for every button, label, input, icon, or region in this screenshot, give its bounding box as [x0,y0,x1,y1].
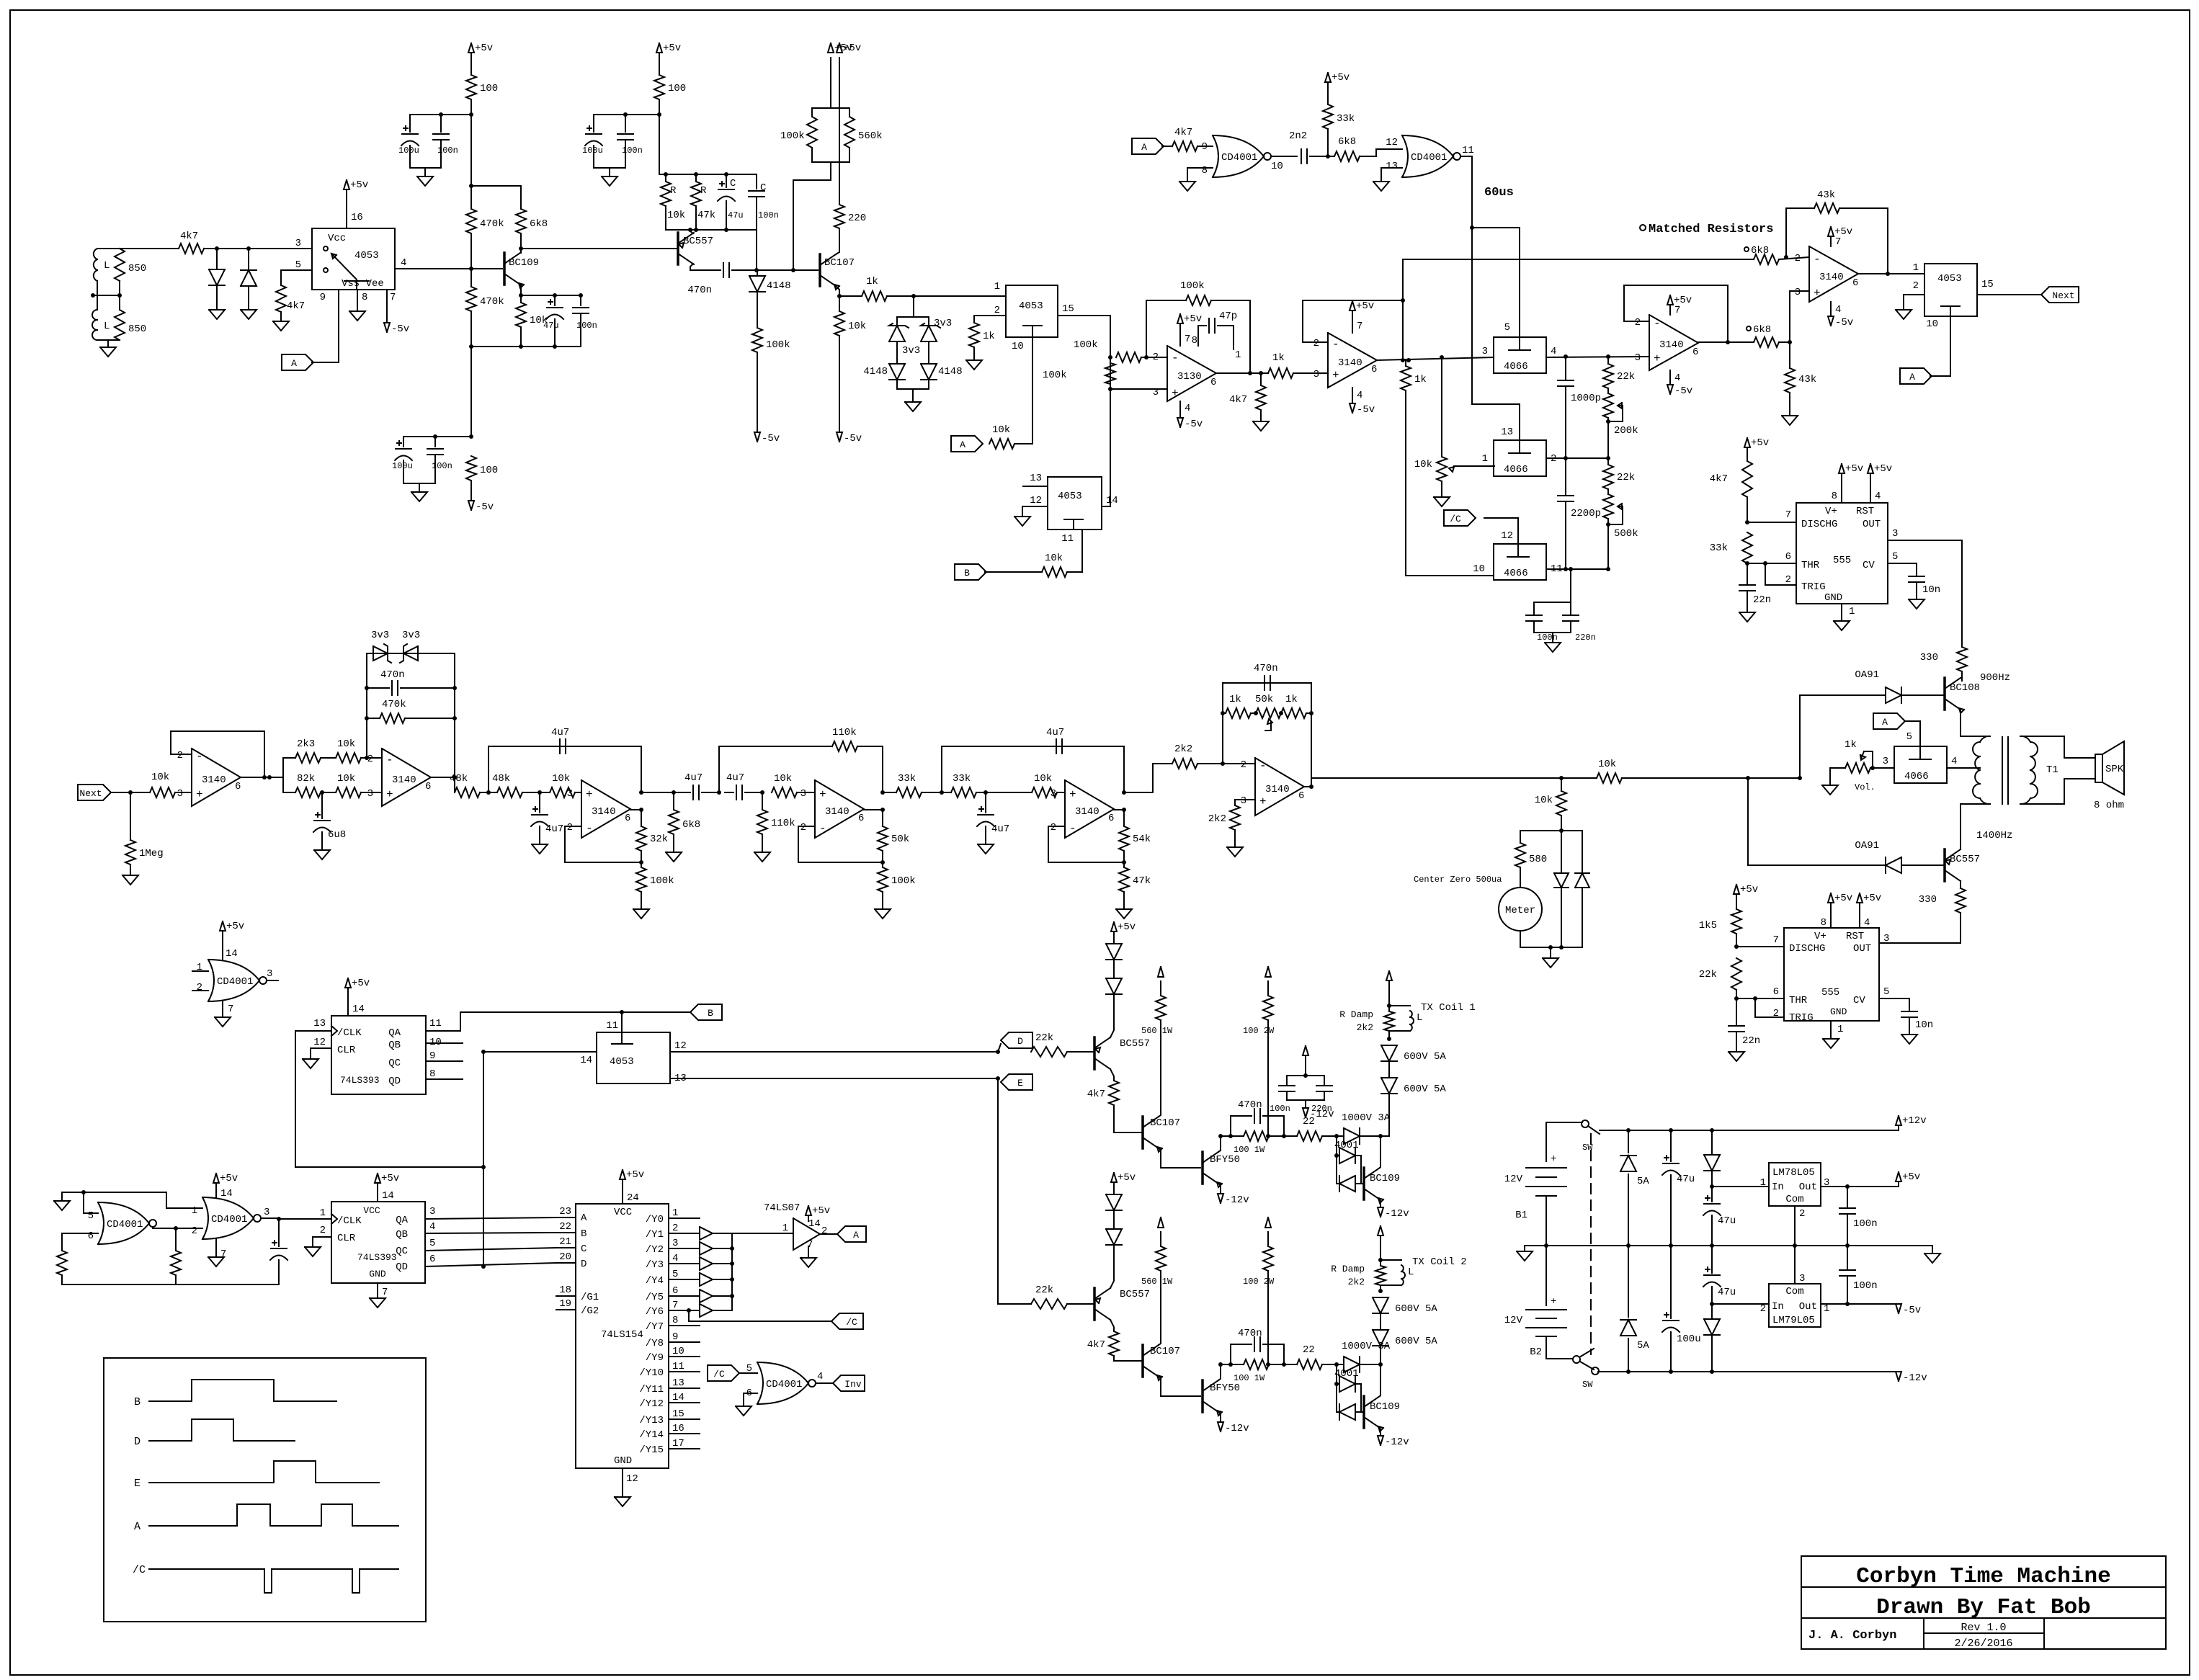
svg-text:Meter: Meter [1505,905,1535,916]
gate CD4001 osc B [192,1197,270,1239]
diode string 2 TX2 [1106,1229,1122,1255]
svg-text:14: 14 [672,1392,684,1403]
svg-text:BC109: BC109 [1370,1173,1400,1184]
svg-text:4: 4 [1674,372,1680,384]
svg-text:B2: B2 [1530,1346,1542,1358]
svg-text:6: 6 [429,1254,435,1265]
svg-text:C: C [730,178,736,189]
power +5v BC107 [837,43,861,54]
svg-text:LM79L05: LM79L05 [1772,1315,1815,1326]
svg-text:+5v: +5v [1874,463,1892,475]
svg-text:100: 100 [480,465,498,476]
svg-text:10k: 10k [552,773,570,785]
resistor 48k second [480,773,531,797]
meter M1 [1499,888,1542,947]
zener clamp network [897,296,929,326]
resistor 10k chain in [150,772,192,797]
svg-text:L: L [1408,1266,1414,1278]
ground caps2 [411,483,427,501]
resistor osc mid [171,1228,181,1284]
junction [433,434,437,439]
svg-text:+5v: +5v [1751,437,1769,449]
wire BC557 collector TX1 [1110,1069,1114,1081]
junction [579,293,583,298]
junction [1266,1362,1270,1367]
wire caps bottom cell2 [594,167,625,169]
capacitor 4u7 coupling A [674,772,719,800]
junction [1122,790,1126,795]
wire base BC109 [395,268,502,269]
pot 10k wiper [1449,466,1494,472]
svg-text:100u: 100u [392,461,413,471]
svg-text:6: 6 [1298,790,1304,802]
junction [1606,567,1610,571]
svg-text:E: E [1017,1078,1023,1089]
resistor 1k fb left [1223,694,1251,718]
svg-text:9: 9 [320,292,326,303]
svg-text:-: - [1172,352,1179,365]
pin 14 wire U13 [1102,495,1118,506]
svg-text:CD4001: CD4001 [1411,152,1447,164]
svg-text:4: 4 [1185,403,1190,414]
svg-text:-: - [1069,822,1076,835]
svg-text:1: 1 [192,1205,197,1217]
junction [620,1010,624,1014]
svg-text:47u: 47u [1677,1174,1695,1185]
svg-text:2: 2 [1913,280,1919,292]
wire TX1 column [1380,1135,1389,1137]
svg-text:4053: 4053 [1937,273,1962,285]
op-amp A3 3140 [567,780,631,838]
svg-text:BFY50: BFY50 [1210,1154,1240,1166]
junction [911,294,916,298]
ground battery mid [1517,1246,1546,1261]
svg-text:100k: 100k [891,875,916,887]
svg-text:22k: 22k [1035,1284,1053,1296]
svg-text:7: 7 [1835,236,1841,248]
transistor Q2 BC557 [678,233,713,264]
junction [940,790,944,795]
svg-text:+12v: +12v [1902,1115,1927,1127]
U17 power +5v [345,978,370,1016]
gate U6 CD4001 second [1386,135,1460,177]
svg-text:7: 7 [672,1300,678,1311]
svg-text:2: 2 [197,982,202,993]
svg-text:4: 4 [672,1253,678,1264]
svg-text:-5v: -5v [844,433,862,444]
svg-text:5: 5 [1504,322,1510,334]
capacitor 47u reg lower [1703,1246,1736,1304]
svg-text:4k7: 4k7 [180,231,198,242]
transistor BFY50 TX2 [1159,1377,1240,1416]
resistor 4k7 TX1 [1087,1081,1141,1132]
svg-text:100k: 100k [650,875,674,887]
svg-text:+5v: +5v [220,1173,238,1184]
junction [1228,1362,1233,1367]
svg-text:-12v: -12v [1385,1208,1409,1220]
resistor 1k 3140a out [1401,360,1427,576]
capacitor 470n damp TX1 [1231,1099,1284,1136]
svg-text:+: + [1069,788,1076,801]
junction [639,860,643,864]
junction [623,112,628,117]
svg-text:5A: 5A [1637,1176,1649,1187]
svg-text:-5v: -5v [476,501,494,513]
svg-text:+: + [1172,387,1179,400]
U19 QB wire [425,1221,556,1233]
svg-text:10: 10 [1012,341,1024,352]
resistor 4k7 TX2 [1087,1331,1141,1361]
svg-text:A: A [1141,142,1147,153]
svg-text:11: 11 [429,1018,442,1029]
svg-text:D: D [1017,1036,1023,1047]
svg-text:QA: QA [388,1027,401,1039]
wire to matched resistors [1403,259,1732,300]
svg-text:47u: 47u [543,321,559,331]
svg-text:6k8: 6k8 [530,218,548,230]
junction [91,293,95,298]
svg-text:/G2: /G2 [581,1305,599,1317]
svg-text:43k: 43k [1798,374,1816,385]
U19 QA wire [425,1206,556,1219]
junction [730,1294,734,1298]
svg-text:1: 1 [1837,1024,1843,1035]
IC U13 4053 B mux [1048,477,1102,530]
svg-text:850: 850 [128,323,146,335]
gate2 input13 ground [1373,168,1402,191]
net flag Next in [78,785,111,800]
resistor 330 bottom [1883,888,1966,943]
svg-text:12: 12 [674,1040,687,1052]
svg-text:-5v: -5v [1185,419,1203,430]
gate2 output 60us [1460,145,1474,228]
svg-text:14: 14 [382,1190,394,1202]
ground 4k7 [273,321,289,331]
svg-text:48k: 48k [450,773,468,785]
diode meter clamp 2 [1575,831,1589,947]
svg-text:OUT: OUT [1853,943,1871,955]
junction [760,790,764,795]
ground 1k [966,360,982,370]
svg-text:2k2: 2k2 [1357,1022,1373,1033]
resistor 6k8 matched lower [1747,324,1790,347]
svg-text:6: 6 [672,1285,678,1297]
svg-text:QD: QD [388,1076,401,1087]
diode 4148 shunt [749,270,791,328]
inv gate output [816,1371,833,1383]
svg-text:100k: 100k [766,339,790,351]
A5 feedback cap 4u7 [942,727,1124,792]
svg-text:6k8: 6k8 [682,819,700,831]
resistor 22k D [1031,1032,1094,1057]
U20 output pins Y0-Y15 [639,1207,700,1456]
svg-text:D: D [134,1436,140,1448]
wire 4k7 to pin3 [204,248,312,249]
junction [1559,776,1564,780]
resistor 43k feedback [1786,189,1888,274]
resistor 4k7 3130 out [1229,373,1269,431]
IC U19 74LS393 first [331,1202,425,1283]
resistor 22k upper [1603,357,1635,388]
svg-text:1: 1 [320,1207,326,1219]
svg-text:8: 8 [1192,335,1197,347]
diode 600V 5A second TX2 [1373,1330,1437,1364]
gate1 input8 ground [1179,168,1213,191]
svg-text:7: 7 [390,292,396,303]
3140b feedback [1624,285,1728,342]
svg-text:10n: 10n [1915,1019,1933,1031]
resistor 10k BC107 emitter [834,296,866,432]
svg-text:Out: Out [1799,1301,1817,1313]
gate1 output wire [1271,156,1297,172]
A4 feedback 110k [719,727,883,792]
svg-text:/Y7: /Y7 [646,1321,664,1333]
capacitor 100u bulk lower [1662,1246,1701,1372]
net flag D [998,1032,1032,1052]
svg-text:BC109: BC109 [509,257,539,269]
svg-text:-5v: -5v [762,433,780,444]
svg-text:A: A [1882,717,1888,728]
junction [1122,860,1126,864]
capacitor 4u7 shunt A5 [977,792,1009,854]
svg-text:8: 8 [1821,917,1826,929]
resistor 22 TX2 [1284,1344,1337,1370]
label center zero [1414,875,1502,885]
svg-text:/C: /C [133,1564,146,1576]
U21 power [800,1205,830,1267]
wire coil pair bottom [97,339,120,341]
3140a feedback wire [1303,300,1403,360]
op-amp A5 3140 [1051,780,1115,838]
svg-text:22n: 22n [1753,594,1771,606]
gate CD4001 inv [746,1362,816,1404]
svg-text:+5v: +5v [812,1205,830,1217]
op-amp U4 3140 [1313,333,1378,388]
zener 3v3 left [889,323,920,364]
svg-text:555: 555 [1833,555,1851,566]
svg-text:TRIG: TRIG [1801,581,1826,593]
net flag /C sample [1444,510,1476,526]
svg-text:3: 3 [800,788,806,800]
svg-text:TX Coil 2: TX Coil 2 [1412,1256,1467,1268]
svg-text:B: B [581,1228,586,1240]
waveform E [134,1461,379,1490]
svg-text:6: 6 [858,813,864,824]
svg-text:560 1W: 560 1W [1141,1277,1173,1287]
junction [1784,255,1788,259]
wire sw to xfmr [1947,767,1980,769]
svg-text:7: 7 [1785,509,1791,521]
svg-text:7: 7 [1773,934,1779,946]
svg-text:THR: THR [1801,560,1820,571]
svg-text:100: 100 [480,83,498,94]
svg-text:6: 6 [1852,277,1858,289]
svg-text:2: 2 [567,822,573,834]
svg-text:5: 5 [1892,551,1898,563]
wire sw3 out [1546,568,1608,570]
svg-text:47k: 47k [1133,875,1151,887]
junction [1334,1134,1339,1138]
junction [365,756,369,760]
svg-text:BC107: BC107 [1150,1346,1180,1357]
svg-text:4148: 4148 [938,366,963,377]
555b pin4 +5v [1857,893,1881,929]
555a discharge wire [1747,509,1796,522]
svg-text:60us: 60us [1484,186,1514,200]
pin 2 U12 ground [1896,280,1924,319]
resistor 100k feedback 3130 [1146,280,1250,373]
meter network [1520,831,1582,947]
svg-text:+: + [1551,1153,1556,1165]
svg-text:Next: Next [2052,290,2074,301]
junction [452,716,457,720]
svg-text:16: 16 [672,1423,684,1434]
junction [1378,1134,1383,1138]
capacitor 4u7 coupling B [725,772,762,800]
switch SW1 [1546,1120,1600,1153]
junction [694,172,698,177]
svg-text:47k: 47k [697,210,715,221]
net flag Inv [833,1375,865,1391]
3140a power [1350,300,1375,416]
svg-text:12: 12 [313,1037,326,1048]
svg-text:QA: QA [396,1215,408,1226]
svg-text:22k: 22k [1617,472,1635,483]
resistor 100k shunt [752,328,790,432]
svg-text:4: 4 [817,1371,823,1382]
svg-text:6: 6 [88,1230,94,1242]
svg-text:19: 19 [559,1298,571,1310]
capacitor 2n2 [1289,130,1328,164]
A6 fb network [1223,683,1311,787]
svg-text:100n: 100n [1853,1280,1878,1292]
svg-text:220n: 220n [1575,633,1596,643]
svg-text:+5v: +5v [226,921,244,932]
svg-text:4: 4 [1357,390,1362,401]
switch U7 4066 first [1482,322,1557,373]
junction [481,1165,486,1169]
svg-text:L: L [1417,1012,1422,1024]
svg-text:100u: 100u [1677,1333,1701,1345]
net flag A vol [1873,713,1905,729]
svg-text:11: 11 [672,1361,684,1372]
junction [717,790,721,795]
svg-text:100 2W: 100 2W [1243,1026,1275,1036]
555a pin4 +5v [1868,463,1892,503]
resistor 10k A3 [550,773,581,797]
U17 QB stub [426,1037,463,1048]
power +5v TX TX1 [1111,921,1136,944]
svg-text:470n: 470n [1254,663,1278,674]
wire BC557 emitter TX1 [1110,1004,1114,1037]
svg-text:/Y0: /Y0 [646,1214,664,1225]
svg-text:+: + [1259,795,1267,808]
svg-text:4066: 4066 [1504,361,1528,372]
svg-text:33k: 33k [898,773,916,785]
capacitor 100n emitter [573,295,597,347]
capacitor 100n cell1 bottom [427,437,452,483]
wire 3140a out [1377,357,1494,360]
resistor 10k B [985,553,1067,577]
net flag B out [690,1004,722,1020]
svg-text:+5v: +5v [1332,72,1350,84]
svg-text:4066: 4066 [1504,568,1528,579]
svg-text:+: + [586,788,593,801]
pin 10 wire U12 [1926,316,1950,376]
svg-text:47p: 47p [1219,310,1237,322]
svg-text:CD4001: CD4001 [217,976,253,988]
svg-text:4053: 4053 [354,250,379,262]
svg-text:100n: 100n [622,146,643,156]
svg-text:8: 8 [429,1068,435,1080]
wire osc bottom [62,1284,279,1285]
svg-text:CLR: CLR [337,1233,356,1244]
svg-text:/Y9: /Y9 [646,1352,664,1364]
svg-text:2: 2 [800,822,806,834]
wire A3 node [641,792,674,793]
A1 feedback [171,731,264,776]
junction [1845,1243,1850,1248]
resistor 22 TX1 [1284,1116,1337,1141]
resistor 48k first [450,773,480,797]
resistor 100 1W TX2 [1221,1359,1284,1383]
osc wiring [62,1192,331,1251]
ground D2 [241,310,257,319]
capacitor 100n +5 [1839,1187,1878,1246]
svg-text:QC: QC [388,1058,401,1069]
junction [1745,520,1749,524]
svg-text:3140: 3140 [592,806,616,818]
resistor 100 bottom cell1 [466,456,498,501]
junction [469,434,473,439]
resistor 10k upper A2 [321,738,382,763]
svg-text:CD4001: CD4001 [107,1219,143,1230]
junction [452,686,457,690]
ground osc rail [54,1192,84,1210]
svg-text:4: 4 [1551,346,1556,357]
svg-text:1k: 1k [983,331,995,342]
power -12v BC109 TX1 [1378,1199,1409,1220]
buffer U21 74LS07 [764,1202,827,1251]
U19 QD wire [425,1254,556,1266]
capacitor 470n A6 [1254,663,1278,690]
svg-text:/Y2: /Y2 [646,1244,664,1256]
wire ctrl sw1 [1472,228,1520,337]
gate CD4001 osc A [88,1202,156,1244]
svg-text:-5v: -5v [1357,404,1375,416]
svg-text:600V 5A: 600V 5A [1395,1336,1437,1347]
junction [1626,1243,1631,1248]
svg-text:GND: GND [369,1269,386,1279]
wire 470k to base [470,233,472,287]
svg-text:CV: CV [1853,995,1865,1006]
svg-text:OA91: OA91 [1855,840,1879,852]
gate CD4001 spare [192,960,278,1001]
svg-text:1: 1 [1849,606,1855,617]
svg-text:4k7: 4k7 [1087,1089,1105,1100]
svg-text:3: 3 [264,1207,269,1218]
ground caps cell2 [602,168,617,186]
svg-text:600V 5A: 600V 5A [1404,1083,1446,1095]
svg-text:BFY50: BFY50 [1210,1382,1240,1394]
svg-text:12: 12 [626,1473,638,1485]
resistor 560 1W TX2 [1141,1217,1173,1345]
svg-text:32k: 32k [650,834,668,845]
svg-text:23: 23 [559,1206,571,1217]
resistor 22k lower [1603,465,1635,489]
svg-text:6: 6 [1371,364,1377,375]
resistor 100 top cell1 [466,75,498,115]
